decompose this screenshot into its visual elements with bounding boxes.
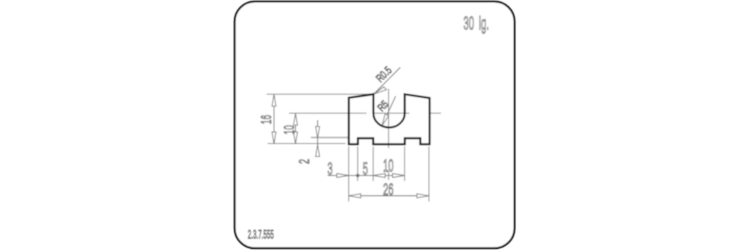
arrow 26 right xyxy=(417,194,429,198)
arrow 10 bottom xyxy=(294,132,298,144)
extension lines below part xyxy=(349,147,429,202)
arrow 10 (points right) xyxy=(393,174,405,178)
arrow 16 bottom xyxy=(272,132,276,144)
arrow 26 left xyxy=(349,194,361,198)
dimension line 2 xyxy=(317,120,319,154)
extension line top (16) xyxy=(267,93,374,95)
arrow 16 top xyxy=(272,94,276,106)
arrow 2 bottom xyxy=(316,145,320,157)
arrow 10 top xyxy=(294,113,298,125)
svg-text:2.3.7.555: 2.3.7.555 xyxy=(248,228,274,242)
dimension line 26 xyxy=(349,195,429,197)
svg-text:3: 3 xyxy=(327,158,332,178)
extension line bottom (16/10) xyxy=(268,143,346,145)
svg-text:10: 10 xyxy=(383,155,394,175)
vertical centerline xyxy=(388,89,390,180)
leader R5 xyxy=(382,96,396,126)
extension line notch top (2) xyxy=(311,137,348,139)
svg-text:30: 30 xyxy=(463,14,474,34)
horizontal centerline xyxy=(289,112,441,114)
arrow R0.5 xyxy=(374,87,387,94)
svg-text:10: 10 xyxy=(280,125,297,134)
part outline xyxy=(349,94,430,144)
svg-text:2: 2 xyxy=(296,159,313,164)
bottom dimension line 3-5-10 xyxy=(328,175,405,177)
arrow 3 (points right at part left edge) xyxy=(337,174,349,178)
dot at 5 start xyxy=(356,174,359,177)
svg-text:16: 16 xyxy=(257,115,274,124)
svg-text:lg.: lg. xyxy=(479,14,489,34)
arrow 2 top xyxy=(316,126,320,138)
arrow R5 xyxy=(382,114,389,126)
leader R0.5 xyxy=(374,67,400,93)
dimension line 16 xyxy=(273,94,275,144)
svg-text:26: 26 xyxy=(383,180,394,198)
dimension line 10 (left) xyxy=(295,113,297,144)
svg-text:5: 5 xyxy=(363,159,368,179)
arrow 5/10 (points left) xyxy=(373,174,385,178)
drawing sheet border xyxy=(235,2,515,249)
